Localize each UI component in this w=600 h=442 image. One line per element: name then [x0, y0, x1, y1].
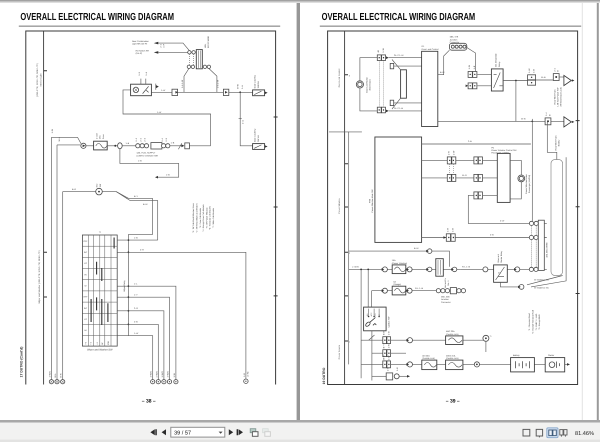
long vertical from bus	[531, 124, 533, 221]
svg-text:(1B–P): (1B–P)	[136, 52, 143, 55]
svg-text:Ignition SW: Ignition SW	[387, 317, 390, 328]
svg-text:B–W: B–W	[143, 203, 148, 206]
svg-text:Door Lock Control: Door Lock Control	[338, 68, 341, 87]
wire ABS to relay connectors	[467, 48, 476, 72]
svg-text:1–R: 1–R	[447, 227, 450, 231]
svg-text:– 38 –: – 38 –	[142, 399, 156, 405]
wire labels	[394, 54, 404, 110]
junction stub	[531, 119, 533, 124]
first page button	[150, 429, 156, 435]
svg-text:Hazard Fu: Hazard Fu	[444, 277, 447, 288]
right edge of right page	[582, 3, 583, 420]
connector arrow row2b	[406, 267, 412, 272]
wire key switch left	[63, 191, 96, 193]
next page button	[229, 429, 233, 435]
wire relay output	[503, 80, 527, 82]
toolbar background	[0, 423, 600, 442]
power bus wire	[438, 120, 564, 122]
svg-text:MAIN 2.0L: MAIN 2.0L	[446, 354, 457, 357]
wire to cab connector	[170, 145, 183, 147]
svg-text:Connector: Connector	[441, 301, 451, 304]
svg-text:Power Window Motor: Power Window Motor	[525, 174, 528, 194]
svg-text:39 / 57: 39 / 57	[174, 430, 191, 437]
svg-text:Starter Relay: Starter Relay	[500, 250, 503, 263]
svg-text:Relay: Relay	[498, 61, 501, 67]
crossing slash	[178, 143, 181, 149]
svg-text:1–AM: 1–AM	[95, 133, 98, 139]
fuse 5A gauge	[392, 281, 406, 295]
connector circles at ladder row2	[529, 267, 538, 271]
connector pair PA	[382, 330, 390, 343]
svg-text:1–W/O: 1–W/O	[150, 371, 153, 378]
connector pair C26	[446, 227, 455, 241]
arrow P2	[466, 85, 469, 88]
svg-text:*5 : Except RHD: *5 : Except RHD	[538, 314, 541, 330]
svg-text:ROOF WIRE: ROOF WIRE	[207, 35, 210, 48]
svg-text:W: W	[101, 343, 104, 345]
branch wire y324	[128, 324, 158, 379]
dashed wires inside connector	[189, 54, 193, 65]
svg-text:B–R: B–R	[382, 330, 385, 335]
svg-text:2–G: 2–G	[134, 307, 138, 310]
svg-text:15A: 15A	[392, 259, 396, 262]
svg-text:*3 : RHD *4 : LHD: *3 : RHD *4 : LHD	[535, 313, 538, 330]
wire motor to bottom connector	[360, 88, 377, 111]
branch labels	[134, 237, 144, 335]
svg-text:W–R: W–R	[462, 174, 467, 177]
svg-text:24–2 1–W: 24–2 1–W	[394, 54, 404, 57]
svg-text:*5 : W/ Power Window: *5 : W/ Power Window	[205, 207, 208, 228]
svg-text:*1 : Standard Roof: *1 : Standard Roof	[528, 313, 531, 331]
svg-text:1–B: 1–B	[386, 367, 389, 371]
connector pair PB	[382, 344, 390, 357]
wire from dome light to fuse row	[123, 90, 211, 146]
connector pins top of roof wire	[188, 51, 191, 54]
svg-text:81.46%: 81.46%	[575, 431, 594, 437]
svg-text:2–B: 2–B	[134, 321, 138, 324]
sidebar label Interior Light	[36, 63, 43, 97]
connector circle row C	[406, 362, 412, 367]
connector pair C21	[447, 151, 456, 164]
svg-text:4B6,: 4B6,	[204, 43, 207, 48]
power window main switch U2	[368, 137, 421, 242]
svg-text:Passenger, LH/RH: Passenger, LH/RH	[491, 152, 509, 155]
sidebar ticks	[345, 75, 348, 341]
svg-text:*6 : Standard Cab Models: *6 : Standard Cab Models	[209, 206, 212, 230]
interior bus wire	[178, 91, 253, 93]
frame ticks right	[576, 121, 580, 294]
eng wire ladder dashed links	[532, 226, 537, 267]
svg-text:1–B: 1–B	[166, 173, 170, 176]
connector circle row2c	[426, 267, 432, 272]
window right border	[597, 3, 599, 420]
junction dots power	[360, 269, 362, 271]
facing pages layout icon (active)	[547, 428, 558, 438]
svg-text:AM 40A: AM 40A	[422, 354, 430, 357]
wire junction to LH switch	[240, 92, 252, 146]
connector pair C22	[474, 157, 483, 164]
svg-text:B–W: B–W	[414, 247, 419, 250]
wire from C3 to dome drop	[189, 145, 210, 147]
wiper and washer switch table	[82, 231, 117, 351]
svg-text:EW: EW	[107, 341, 110, 344]
svg-text:(Back Door): (Back Door)	[369, 79, 372, 90]
wire ABS to ECU	[438, 50, 450, 74]
svg-text:1–W: 1–W	[468, 65, 471, 69]
connector C1 on bus	[172, 89, 178, 95]
wire after fuse	[107, 145, 117, 147]
connector pin labels	[377, 48, 385, 52]
wire to roof connector (upper)	[158, 43, 189, 51]
svg-text:2–R: 2–R	[140, 248, 144, 251]
wire to ECU top	[389, 57, 422, 59]
svg-text:1–W: 1–W	[382, 48, 385, 52]
connector circle right	[244, 379, 248, 383]
svg-text:19 DUTRO: 19 DUTRO	[322, 367, 326, 384]
sidebar divider	[344, 31, 346, 385]
svg-text:SW RH: SW RH	[257, 81, 260, 88]
last page button	[237, 429, 243, 435]
long wire right P2	[527, 276, 563, 285]
section numbers	[349, 74, 351, 343]
svg-text:Wiper and Washer (15B–FTE, S0: Wiper and Washer (15B–FTE, S05C–TB, N04C…	[38, 250, 41, 304]
alternator output J/C	[500, 282, 523, 289]
svg-text:LO: LO	[84, 262, 87, 265]
door lock motor M1	[356, 77, 371, 93]
wire left drop from roof connector	[184, 69, 189, 93]
battery B1	[511, 354, 535, 372]
connector C3	[181, 143, 189, 149]
svg-text:(W/ Back Door Lock): (W/ Back Door Lock)	[559, 87, 562, 106]
label hard wire	[553, 87, 562, 106]
svg-text:17 DUTRO (Cont’d): 17 DUTRO (Cont’d)	[20, 347, 24, 378]
wire key switch to bus (ACC)	[102, 192, 152, 235]
svg-text:1–P: 1–P	[163, 43, 166, 47]
svg-text:2–B: 2–B	[490, 234, 494, 237]
ignition switch SW2	[364, 307, 391, 331]
svg-text:1–W/O: 1–W/O	[167, 371, 170, 378]
connector node A	[81, 143, 86, 148]
junction circle row C	[474, 362, 479, 367]
svg-text:1–W: 1–W	[51, 129, 54, 133]
power window motor M2	[518, 174, 531, 194]
relay connector pair P1	[468, 65, 477, 77]
sidebar tick marks	[44, 71, 47, 297]
svg-text:W–B: W–B	[541, 76, 546, 79]
svg-text:Door Lock Control: Door Lock Control	[422, 48, 439, 51]
wire feed lower left	[57, 144, 80, 146]
connector pair C23	[447, 174, 456, 181]
svg-text:Door Courtesy: Door Courtesy	[254, 128, 257, 142]
arrow out of starter	[567, 363, 570, 366]
svg-text:*2 : W/ Rear Wiper and Washer: *2 : W/ Rear Wiper and Washer	[196, 203, 199, 232]
svg-text:Connector: Connector	[450, 41, 460, 44]
svg-text:2–B: 2–B	[468, 140, 472, 143]
resistor block R1	[392, 60, 406, 110]
svg-text:Battery: Battery	[558, 139, 561, 147]
svg-text:*1 : W/ Cab Back Window Glass: *1 : W/ Cab Back Window Glass	[192, 203, 195, 233]
fuse 15A power window	[392, 259, 408, 273]
svg-text:LO: LO	[84, 318, 87, 321]
table row labels	[83, 240, 88, 332]
wire from pw box bottom	[422, 237, 447, 239]
svg-text:Door Courtesy: Door Courtesy	[254, 74, 257, 88]
wire to fuel supply connector	[122, 145, 136, 147]
svg-text:No. 1: No. 1	[447, 280, 450, 286]
wire pw top right	[422, 143, 531, 145]
ground circles left group	[49, 380, 65, 384]
svg-text:1–W/O: 1–W/O	[161, 371, 164, 378]
svg-text:1–B: 1–B	[452, 227, 455, 231]
svg-text:(Fusible Link): (Fusible Link)	[446, 357, 459, 360]
ground connector row left	[51, 137, 62, 379]
top window edge strip	[0, 0, 600, 2]
wire pw row1	[422, 159, 498, 161]
svg-text:1–W: 1–W	[134, 332, 138, 335]
connector pair bottom	[377, 107, 385, 113]
svg-text:2–G: 2–G	[241, 120, 244, 124]
svg-text:Battery: Battery	[513, 354, 521, 357]
off-page arrow A2	[564, 117, 571, 127]
wire feed upper left	[51, 137, 81, 143]
fusible link F1	[553, 67, 559, 80]
junction connector 4B6 34B row	[436, 288, 465, 304]
page number box	[171, 427, 225, 437]
long wire to eng connector	[455, 237, 529, 239]
connector pins bottom of roof wire	[187, 65, 190, 68]
svg-text:OFF: OFF	[83, 240, 88, 243]
previous view icon	[250, 429, 258, 437]
group boundary rounded rect	[551, 160, 563, 276]
key switch SW1	[95, 183, 102, 195]
power source verticals	[361, 269, 374, 380]
branch wire y252 to connector	[128, 252, 246, 379]
wire to off-page arrow	[559, 76, 564, 78]
svg-text:1–B: 1–B	[396, 367, 399, 371]
connector stub C11	[390, 63, 421, 68]
svg-text:B–R: B–R	[72, 188, 77, 191]
branch wire y335	[128, 336, 152, 380]
dome light pin stubs	[141, 79, 146, 85]
svg-text:W: W	[85, 285, 87, 288]
title underline	[320, 26, 581, 27]
svg-text:(2–R): (2–R)	[246, 371, 249, 377]
dome light output wire	[151, 91, 172, 93]
wire labels w-model	[534, 278, 549, 289]
eng wire connector body	[538, 220, 548, 270]
connector circles bottom center	[151, 380, 178, 384]
svg-text:Left Side Power SW: Left Side Power SW	[556, 88, 559, 107]
door courtesy switch LH	[253, 128, 268, 150]
node: to Rear Combination Light RH	[132, 40, 166, 47]
svg-text:SW LH: SW LH	[257, 135, 260, 142]
row A wire	[361, 339, 486, 341]
connector arrow row3b	[406, 288, 412, 293]
svg-text:4B6, ENG WIRE: 4B6, ENG WIRE	[546, 242, 549, 258]
connector pair stacked C13	[528, 68, 536, 85]
svg-text:(Fusible Link): (Fusible Link)	[422, 357, 435, 360]
eng wire connector circles top row	[529, 221, 538, 225]
power window passenger switch U3	[491, 147, 516, 203]
sidebar divider	[43, 31, 45, 385]
svg-text:1–R: 1–R	[448, 151, 451, 155]
svg-text:P/W: P/W	[368, 199, 371, 203]
row B wire	[372, 352, 406, 354]
starter ST1	[545, 354, 565, 372]
svg-text:1–Y: 1–Y	[134, 293, 138, 296]
connector pair C25 lower	[474, 192, 483, 199]
svg-text:1–W: 1–W	[387, 356, 390, 360]
svg-text:R–L 1–B: R–L 1–B	[415, 287, 424, 290]
junction dot	[367, 269, 369, 271]
wire motor to top connector	[360, 58, 377, 81]
connector ellipse junction	[118, 143, 123, 149]
svg-text:Hard Wire From: Hard Wire From	[555, 135, 558, 150]
svg-text:1–B: 1–B	[533, 68, 536, 72]
section border wire	[329, 131, 362, 133]
svg-text:1–B: 1–B	[134, 237, 138, 240]
vertical feeds to ignition	[368, 269, 371, 307]
svg-text:B–Y: B–Y	[382, 344, 385, 349]
svg-text:1–B: 1–B	[126, 142, 130, 145]
svg-text:– 39 –: – 39 –	[446, 399, 460, 405]
connector circle row3a	[382, 288, 388, 293]
direction marker arrow	[155, 84, 157, 90]
connector circle row2f	[514, 267, 520, 272]
sidebar label 17 DUTRO	[20, 347, 24, 378]
wire labels above ground circles	[48, 371, 62, 378]
svg-text:Junction: Junction	[441, 298, 450, 301]
frame border ticks	[274, 117, 278, 296]
svg-text:4A6, FUEL SUPPLY: 4A6, FUEL SUPPLY	[137, 152, 156, 155]
row3 wire	[372, 290, 437, 292]
svg-text:1–W: 1–W	[161, 89, 165, 92]
connector C2 on bus	[223, 89, 228, 95]
svg-text:R–L 1–B: R–L 1–B	[462, 266, 471, 269]
alternator box	[494, 250, 508, 282]
svg-text:4B6, 4Y8: 4B6, 4Y8	[450, 36, 459, 39]
svg-text:W–Model (1–B): W–Model (1–B)	[534, 287, 549, 290]
arrow into wire	[443, 236, 446, 239]
next view icon (disabled)	[263, 429, 271, 437]
dome light assembly	[131, 84, 152, 96]
arrow into wire bottom	[386, 110, 389, 113]
svg-text:Junction: Junction	[450, 38, 459, 41]
wire right drop from roof connector	[209, 69, 217, 93]
junction connector ABS	[449, 36, 466, 51]
door courtesy switch RH	[253, 74, 268, 96]
svg-text:1–R: 1–R	[387, 344, 390, 348]
bottom center connector	[372, 367, 410, 380]
svg-text:AM2 30A: AM2 30A	[446, 330, 455, 333]
svg-text:SW: SW	[99, 184, 102, 187]
hazard fuse block	[436, 259, 450, 288]
junction connector 4A6 fuel supply	[135, 137, 170, 157]
svg-text:Starter: Starter	[548, 354, 555, 357]
dashed wires below C21	[450, 164, 454, 174]
svg-text:1–W: 1–W	[157, 111, 161, 114]
connector circle row1	[426, 249, 432, 254]
svg-text:4B6, 34B: 4B6, 34B	[441, 295, 450, 298]
branch wire y286	[128, 286, 176, 379]
svg-text:W–B: W–B	[521, 118, 526, 121]
wire row2 right	[460, 268, 529, 270]
wiper relay bus	[128, 235, 152, 336]
starter signal connector	[483, 335, 493, 352]
junction dots on bus	[127, 239, 129, 325]
svg-text:L–40 B: L–40 B	[352, 266, 359, 269]
connector circles pair on ladder	[529, 235, 538, 239]
svg-text:B–Y: B–Y	[134, 195, 139, 198]
diagram frame	[26, 31, 276, 385]
previous page button	[162, 429, 166, 435]
dashed connector link wires	[379, 61, 383, 108]
svg-text:1–W/O: 1–W/O	[48, 371, 51, 378]
svg-text:*4 : Except Crew Cab Models: *4 : Except Crew Cab Models	[202, 204, 205, 231]
wire label 2-G	[239, 117, 242, 119]
svg-text:1–W: 1–W	[528, 68, 531, 72]
svg-text:Light RH (1B–P): Light RH (1B–P)	[132, 43, 147, 46]
connector pair PC	[382, 355, 390, 368]
sidebar label Wiper and Washer	[38, 250, 41, 304]
labels above bottom center connectors	[150, 371, 176, 378]
junction node B-W	[239, 91, 241, 93]
svg-text:Glow and: Glow and	[497, 253, 500, 263]
svg-text:Wiper and Washer SW: Wiper and Washer SW	[87, 349, 113, 352]
junction dot	[515, 80, 517, 82]
svg-text:Power Window Main SW: Power Window Main SW	[371, 190, 374, 213]
connector 4B6 ROOF WIRE	[196, 35, 210, 68]
wire key switch to bus (IG)	[116, 192, 158, 241]
svg-text:(15B–FTE, S05C–TB, N04C–TF): (15B–FTE, S05C–TB, N04C–TF)	[36, 63, 39, 97]
svg-text:OFF: OFF	[83, 296, 88, 299]
long wire right P1	[547, 121, 557, 159]
table stubs	[117, 240, 128, 336]
svg-text:24–2 1–B: 24–2 1–B	[394, 107, 404, 110]
row1 wire hazard feed	[349, 251, 450, 267]
row C wire	[361, 363, 567, 365]
rail A	[348, 132, 350, 365]
svg-text:(LIGHT) CONNECTOR: (LIGHT) CONNECTOR	[137, 154, 159, 157]
svg-text:Wiper Relay: Wiper Relay	[123, 279, 126, 291]
footnote text block right	[528, 310, 541, 334]
diagram frame	[328, 31, 578, 385]
svg-text:2–W: 2–W	[500, 220, 504, 223]
connector circle row2a	[382, 267, 388, 272]
node: to Rear Combination Light LH	[136, 49, 159, 54]
connector pair top	[377, 55, 385, 61]
wires passenger box to motor	[510, 160, 521, 199]
wires pairs to relay	[477, 74, 491, 85]
svg-text:(Gauge): (Gauge)	[393, 283, 401, 286]
long wire right P3	[531, 157, 566, 287]
connector stub C12	[390, 100, 421, 105]
svg-text:*2 : Except Standard Roof: *2 : Except Standard Roof	[532, 310, 535, 334]
svg-text:B–W: B–W	[440, 71, 445, 74]
fuse 1-AM	[94, 133, 108, 150]
svg-text:1–W: 1–W	[173, 373, 176, 377]
bus branch to key	[128, 239, 157, 241]
svg-text:(Fusible Link): (Fusible Link)	[446, 333, 459, 336]
footnote text block	[192, 203, 215, 233]
title underline	[19, 26, 280, 27]
switch contact bars	[91, 238, 114, 326]
label above right connector	[243, 371, 250, 377]
svg-text:1–W: 1–W	[453, 151, 456, 155]
off-page arrow A1	[564, 75, 571, 85]
svg-text:2–R: 2–R	[243, 373, 246, 377]
single page layout icon	[523, 429, 530, 436]
